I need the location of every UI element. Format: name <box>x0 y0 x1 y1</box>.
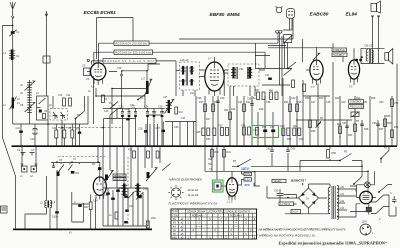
svg-text:R23: R23 <box>206 138 211 141</box>
svg-text:R19: R19 <box>231 108 236 111</box>
svg-text:- DL.EL.E2: - DL.EL.E2 <box>187 189 199 192</box>
svg-text:R32: R32 <box>287 138 292 141</box>
svg-text:C45: C45 <box>274 190 279 193</box>
svg-text:170V: 170V <box>245 173 251 176</box>
svg-text:ROZSAH KV 5,9-12,5 MHz: ROZSAH KV 5,9-12,5 MHz <box>105 60 156 63</box>
svg-text:250: 250 <box>245 183 250 187</box>
svg-text:500: 500 <box>84 206 89 209</box>
svg-text:C31: C31 <box>238 101 243 104</box>
svg-text:C52: C52 <box>104 194 109 197</box>
svg-text:C40: C40 <box>291 97 296 100</box>
svg-text:Expediční stejnosměrné gramorá: Expediční stejnosměrné gramorádio 1100A … <box>279 240 388 245</box>
svg-text:R17: R17 <box>206 118 211 121</box>
svg-text:C18: C18 <box>117 67 122 70</box>
svg-text:C30: C30 <box>220 97 225 100</box>
svg-text:R18: R18 <box>214 101 219 104</box>
svg-text:ROZSAH SV 520-1600 kHz: ROZSAH SV 520-1600 kHz <box>116 51 152 54</box>
svg-text:R25: R25 <box>196 131 201 134</box>
svg-text:2x0,8: 2x0,8 <box>292 211 299 214</box>
svg-text:R47: R47 <box>379 128 384 131</box>
svg-text:C25: C25 <box>158 106 163 109</box>
svg-text:C52: C52 <box>394 102 399 105</box>
svg-text:R50: R50 <box>386 115 391 118</box>
svg-text:P10: P10 <box>143 188 148 191</box>
svg-text:DV: DV <box>173 218 177 221</box>
svg-text:C41: C41 <box>241 124 246 127</box>
svg-text:C49: C49 <box>341 101 346 104</box>
svg-text:R30: R30 <box>280 125 285 128</box>
svg-text:R35: R35 <box>128 149 133 152</box>
svg-text:Gr: Gr <box>173 229 176 232</box>
svg-text:C: C <box>74 201 76 204</box>
svg-text:C51: C51 <box>363 101 368 104</box>
svg-text:R46: R46 <box>371 97 376 100</box>
svg-text:L33: L33 <box>340 207 345 210</box>
svg-text:R22: R22 <box>259 108 264 111</box>
svg-text:ROZSAH I: ROZSAH I <box>192 214 204 217</box>
svg-text:R39: R39 <box>311 130 316 133</box>
svg-text:VYHYBKA: VYHYBKA <box>350 101 362 104</box>
svg-text:C54: C54 <box>129 205 134 208</box>
svg-text:C37: C37 <box>270 126 275 129</box>
svg-text:KV: KV <box>173 225 177 228</box>
svg-text:EABC80: EABC80 <box>310 11 329 17</box>
svg-text:ÚČINNÁ DRÁHA TLAČÍTKA PŘI 0,2: ÚČINNÁ DRÁHA TLAČÍTKA PŘI 0,2 SPOJUJE KO… <box>187 210 251 213</box>
svg-text:R31: R31 <box>262 126 267 129</box>
svg-text:A2B: A2B <box>208 158 213 161</box>
svg-text:HLOUBKY: HLOUBKY <box>333 54 345 57</box>
svg-text:C29: C29 <box>197 97 202 100</box>
svg-text:SELEN: SELEN <box>274 180 282 183</box>
svg-text:TP: TP <box>173 233 176 236</box>
svg-text:R44: R44 <box>356 97 361 100</box>
svg-text:SV: SV <box>173 222 177 225</box>
svg-text:C48: C48 <box>326 101 331 104</box>
svg-text:ROZSAH II: ROZSAH II <box>230 214 242 217</box>
svg-text:187V: 187V <box>241 167 250 171</box>
svg-text:H42: H42 <box>208 163 213 166</box>
svg-text:———: ——— <box>232 225 240 228</box>
svg-text:C26: C26 <box>174 126 179 129</box>
svg-text:L17: L17 <box>141 78 146 81</box>
svg-text:TLAČÍTKOVÝ PŘEPÍNAČ FY-J5: TLAČÍTKOVÝ PŘEPÍNAČ FY-J5 <box>168 201 217 206</box>
svg-text:R38: R38 <box>305 97 310 100</box>
svg-text:C20: C20 <box>124 108 129 111</box>
svg-text:R4h: R4h <box>215 151 220 154</box>
svg-text:C13: C13 <box>30 138 35 141</box>
svg-text:L18: L18 <box>163 96 168 99</box>
svg-text:TLAČ.: TLAČ. <box>172 210 179 213</box>
svg-text:C41: C41 <box>253 129 258 132</box>
svg-text:VKV: VKV <box>172 237 177 240</box>
svg-text:C43: C43 <box>291 148 296 151</box>
svg-text:C47: C47 <box>311 101 316 104</box>
svg-text:R40: R40 <box>319 97 324 100</box>
svg-text:———: ——— <box>195 225 203 228</box>
svg-text:C24: C24 <box>144 106 149 109</box>
svg-text:R28: R28 <box>297 101 302 104</box>
svg-text:L31: L31 <box>340 193 345 196</box>
svg-text:R43: R43 <box>348 134 353 137</box>
svg-text:C: C <box>390 192 392 195</box>
svg-text:L32: L32 <box>340 200 345 203</box>
svg-text:C44: C44 <box>265 74 270 77</box>
svg-text:KOREKCE: KOREKCE <box>333 49 345 52</box>
svg-text:2k2: 2k2 <box>269 89 274 92</box>
svg-text:R52: R52 <box>394 126 399 129</box>
svg-text:ECC85 ECH81: ECC85 ECH81 <box>84 10 117 16</box>
svg-text:C53: C53 <box>379 101 384 104</box>
svg-text:C11: C11 <box>66 94 71 97</box>
svg-text:2M2: 2M2 <box>299 138 304 141</box>
svg-text:R33: R33 <box>293 125 298 128</box>
svg-text:EL84: EL84 <box>346 11 358 17</box>
svg-text:B250C75 *: B250C75 * <box>291 179 307 183</box>
svg-text:10n: 10n <box>190 92 195 95</box>
svg-text:———: ——— <box>195 233 203 236</box>
svg-text:L30: L30 <box>340 186 345 189</box>
svg-text:3n9: 3n9 <box>75 172 80 175</box>
svg-text:NA MĚŘENÍ NAPĚTÍ A PROUDŮ POUŽ: NA MĚŘENÍ NAPĚTÍ A PROUDŮ POUŽIT PŘÍSTRO… <box>259 227 347 232</box>
svg-text:R21: R21 <box>246 101 251 104</box>
svg-text:R14: R14 <box>179 111 184 114</box>
svg-text:1 2 3: 1 2 3 <box>227 201 233 204</box>
svg-text:0,1 50mA: 0,1 50mA <box>280 203 291 206</box>
svg-text:PAM3A-B: PAM3A-B <box>114 175 123 178</box>
svg-text:R17: R17 <box>199 101 204 104</box>
svg-text:C26: C26 <box>138 128 143 131</box>
svg-text:2V: 2V <box>306 198 309 201</box>
svg-text:R50: R50 <box>387 122 392 125</box>
svg-text:C39: C39 <box>266 101 271 104</box>
svg-text:C23: C23 <box>160 111 165 114</box>
svg-text:C21: C21 <box>130 104 135 107</box>
svg-text:R58: R58 <box>332 152 337 155</box>
svg-text:C10: C10 <box>58 94 63 97</box>
svg-text:REGULACE: REGULACE <box>350 106 364 109</box>
svg-text:NÁPICE ELEKTRONEK: NÁPICE ELEKTRONEK <box>169 178 203 182</box>
svg-text:HRN.STK-B: HRN.STK-B <box>114 179 125 181</box>
svg-text:R26: R26 <box>284 101 289 104</box>
svg-text:R60: R60 <box>119 187 124 190</box>
svg-text:C15: C15 <box>104 110 109 113</box>
svg-text:L18: L18 <box>181 117 186 120</box>
svg-text:C32: C32 <box>239 68 244 71</box>
svg-text:220V: 220V <box>362 221 368 224</box>
svg-text:ROZSAH DV 150-300 kHz: ROZSAH DV 150-300 kHz <box>116 42 149 45</box>
svg-text:R45: R45 <box>364 128 369 131</box>
svg-text:C50: C50 <box>372 122 377 125</box>
svg-text:C22: C22 <box>152 111 157 114</box>
svg-text:* MĚŘENO NA POČÁTKU ROZVODU 2h: * MĚŘENO NA POČÁTKU ROZVODU 2h <box>257 232 315 237</box>
svg-text:EBF80 EM84: EBF80 EM84 <box>210 12 240 18</box>
svg-text:R20: R20 <box>218 125 223 128</box>
svg-text:- DL.EL.E8: - DL.EL.E8 <box>187 194 199 197</box>
svg-text:L19 L21: L19 L21 <box>180 59 189 62</box>
svg-text:1,2V: 1,2V <box>245 179 250 182</box>
svg-text:C12: C12 <box>16 127 21 130</box>
svg-text:C36 C37: C36 C37 <box>364 45 374 48</box>
svg-text:C44: C44 <box>342 122 347 125</box>
svg-text:C42: C42 <box>266 148 271 151</box>
svg-text:R41: R41 <box>227 151 232 154</box>
svg-text:2M2: 2M2 <box>151 217 156 220</box>
svg-text:C27: C27 <box>156 127 161 130</box>
svg-text:R19: R19 <box>224 109 229 112</box>
svg-text:OZN.: OZN. <box>173 214 179 217</box>
svg-text:R27: R27 <box>255 89 260 92</box>
svg-text:R42: R42 <box>335 97 340 100</box>
svg-text:150kc: 150kc <box>52 216 59 219</box>
